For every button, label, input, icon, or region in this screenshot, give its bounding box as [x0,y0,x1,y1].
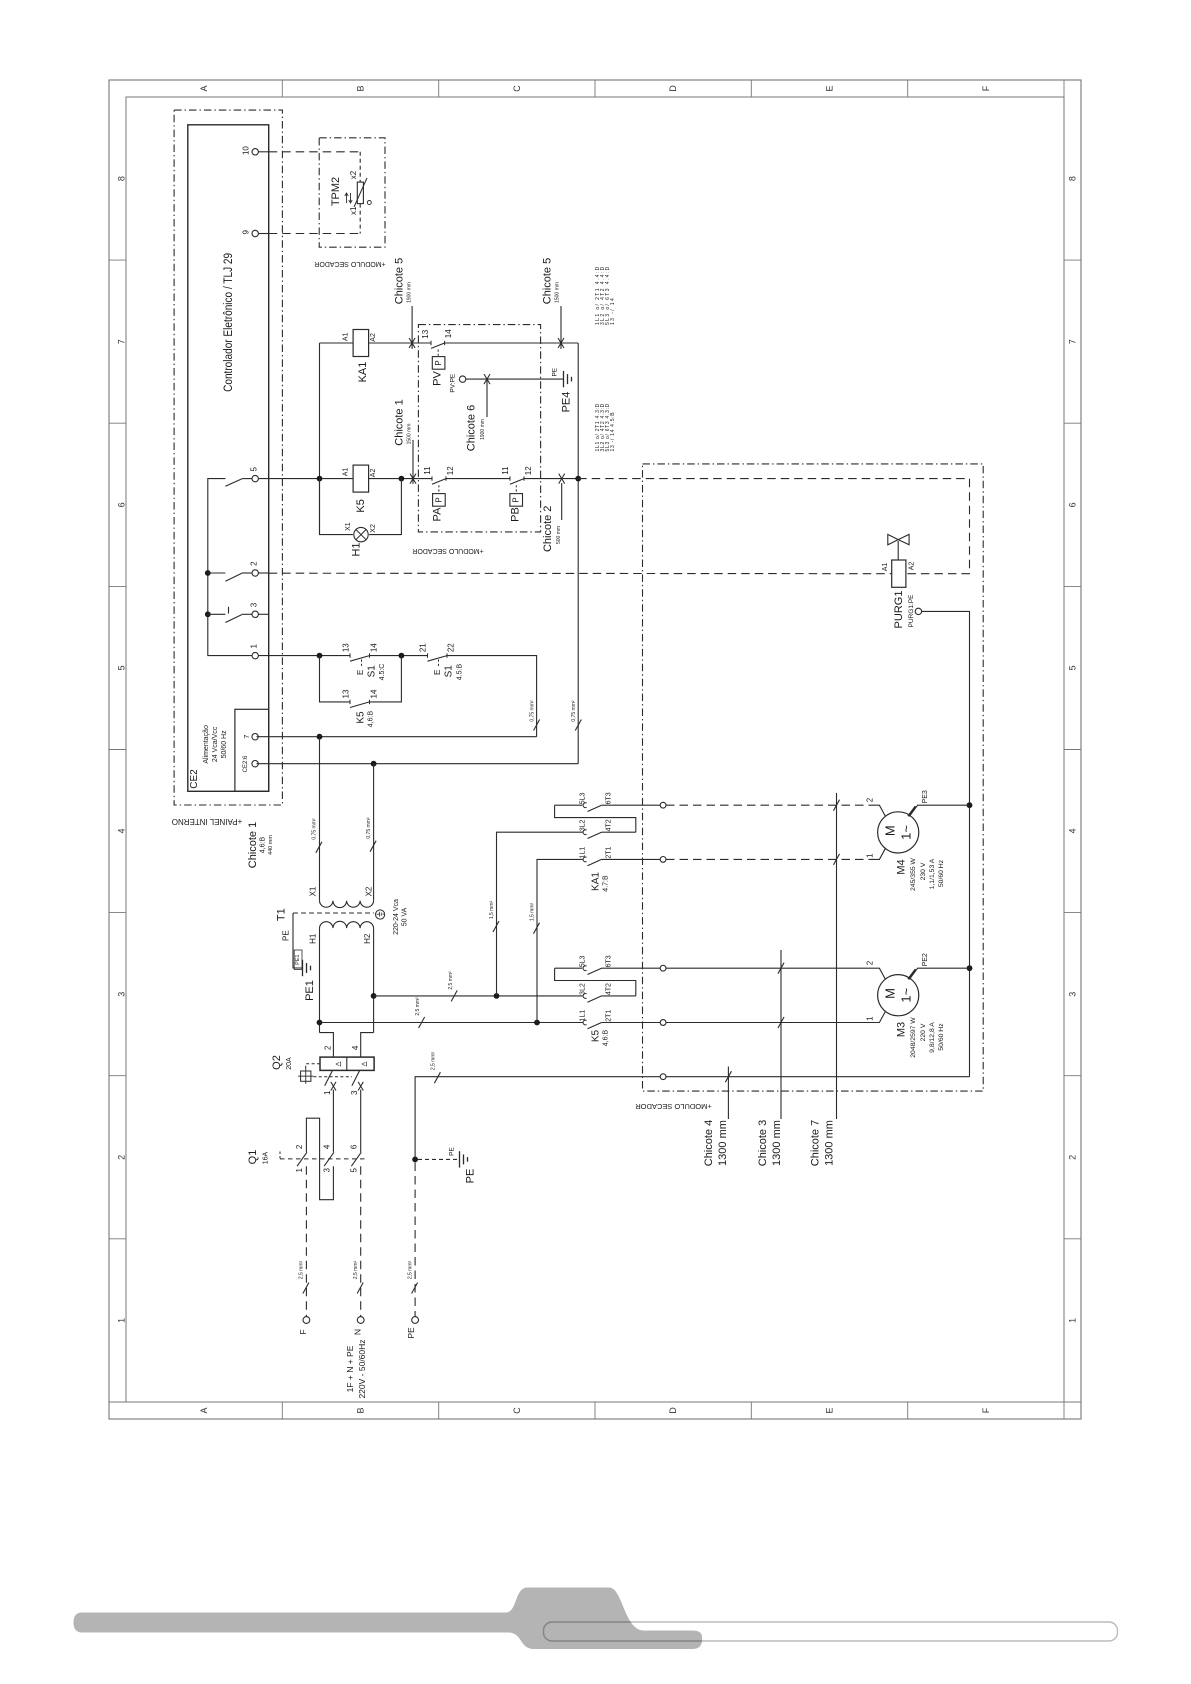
contact S1 13/14 [349,653,351,657]
svg-text:1500 mm: 1500 mm [555,282,561,303]
svg-text:2048/2597 W: 2048/2597 W [910,1017,917,1058]
frame row divider right [1064,422,1081,424]
svg-text:C: C [512,85,522,92]
svg-text:3: 3 [322,1168,331,1173]
frame row divider left [109,422,126,424]
motor M4 PE lead [909,805,969,816]
frame column divider bottom [438,1402,440,1419]
svg-text:220-24 Vca: 220-24 Vca [393,899,400,935]
wire KA1 coil to PV contact [369,342,431,344]
frame row divider right [1064,1075,1081,1077]
svg-text:2,5 mm²: 2,5 mm² [299,1261,305,1280]
svg-text:4,6:B: 4,6:B [260,837,267,854]
wire terminal 10 to TPM2 (dashed) [258,151,268,153]
ground symbol PE1 [302,960,304,976]
wire lamp branch left [320,479,353,535]
contactor KA1 contact 1L1-2T1 [583,857,587,862]
svg-text:1,5 mm²: 1,5 mm² [529,903,535,922]
terminal CE2:6 [252,761,258,767]
svg-text:TPM2: TPM2 [330,177,342,206]
svg-text:440 mm: 440 mm [268,835,274,855]
junction M4 PE [967,802,973,808]
svg-text:K5: K5 [355,499,367,512]
svg-text:3: 3 [117,992,127,997]
frame row divider left [109,1238,126,1240]
svg-text:2: 2 [1068,1155,1078,1160]
controller internal switch to terminal 5 [225,479,241,486]
contact K5 aux 13/14 [349,700,351,704]
Q1 linkage dashed [280,1158,365,1160]
svg-text:7: 7 [1068,339,1078,344]
junction K5aux right [399,653,405,659]
svg-text:H1: H1 [351,542,363,556]
controller terminal 1 [252,652,258,658]
svg-text:+PAINEL INTERNO: +PAINEL INTERNO [172,817,242,826]
svg-text:PE1: PE1 [304,980,316,1001]
svg-text:PE: PE [552,367,559,376]
slash 1.5mm feeder [493,921,499,932]
svg-text:N: N [352,1329,362,1335]
TPM2 adjust arrows [346,194,348,203]
svg-text:A1: A1 [882,563,889,572]
svg-text:1: 1 [1068,1318,1078,1323]
wire terminal 5 to K5 coil [258,478,353,480]
frame row divider right [1064,1238,1081,1240]
junction K5 feed [317,476,323,482]
Q2 pole 3 blade [352,1070,360,1085]
svg-text:1: 1 [866,853,875,858]
svg-text:Chicote 1: Chicote 1 [393,399,405,445]
svg-text:1500 mm: 1500 mm [407,424,413,445]
svg-text:3L2: 3L2 [580,819,587,831]
terminal PURG1 PE [915,608,921,614]
vertical wire x578 contact output down to CE2:6 wire [577,343,579,764]
enclosure +PAINEL INTERNO dash-dot box [174,110,282,805]
wire S1-22 down to terminal 7 row [447,656,537,737]
svg-text:CE2:6: CE2:6 [243,755,249,772]
thermostat TPM2 sensor leads [359,152,361,182]
svg-text:3: 3 [1068,992,1078,997]
T1 PE branch wire [293,913,303,968]
feeder wire to KA1 3L2 [497,832,583,996]
svg-text:PURG1:PE: PURG1:PE [908,594,915,628]
frame column divider bottom [750,1402,752,1419]
svg-text:14: 14 [444,329,453,338]
svg-text:A1: A1 [343,332,350,341]
svg-text:4T2: 4T2 [605,983,612,995]
svg-text:PE: PE [465,1169,477,1184]
svg-text:2: 2 [866,960,875,965]
controller box Controlador Eletronico / TLJ 29 [188,125,269,792]
svg-text:16A: 16A [262,1151,269,1164]
harness crossing X Chicote1 on KA1 row [409,338,415,348]
slash 1.5mm feeder 2 [533,923,539,934]
frame row divider left [109,585,126,587]
svg-text:Chicote 2: Chicote 2 [542,506,554,552]
junction valve return [575,476,581,482]
svg-text:1L1: 1L1 [580,847,587,859]
svg-text:1~: 1~ [899,987,914,1002]
svg-text:Controlador Eletrônico / TLJ 2: Controlador Eletrônico / TLJ 29 [221,253,235,392]
svg-text:K5: K5 [355,711,366,724]
svg-text:3: 3 [250,602,259,607]
contactor K5 contact 5L3-6T3 [583,966,587,971]
svg-text:M4: M4 [896,859,908,874]
svg-text:5: 5 [350,1168,359,1173]
svg-text:4.7:B: 4.7:B [603,875,610,892]
svg-text:Chicote 5: Chicote 5 [394,258,406,304]
transformer screen terminal circle [376,910,385,919]
svg-text:22: 22 [446,643,455,652]
K5 aux parallel branch [320,656,351,702]
slash 0.75mm on X2 lead [370,841,376,852]
wire F input dashed [305,1166,307,1316]
vertical wire x319.5 KA1 row to lamp row [319,343,321,535]
svg-text:0,75 mm²: 0,75 mm² [311,818,317,839]
wire terminal 2 to purge valve A1 (dashed) [258,572,268,574]
svg-text:A2: A2 [370,469,377,478]
K5 4T2 output to jumper [602,995,636,997]
connector circle K5 2T1 [660,1020,666,1026]
harness crossing X Chicote1 on K5 row [410,474,416,484]
Q2 manual actuator square [301,1071,311,1081]
svg-text:Chicote 1: Chicote 1 [247,822,259,868]
svg-text:2T1: 2T1 [605,846,612,858]
wire Q2 pole3 to Q1 pole6 [360,1090,362,1153]
junction KA1 1L1 feed tap [534,1020,540,1026]
frame row divider left [109,1075,126,1077]
svg-text:Alimentação: Alimentação [203,725,210,764]
svg-text:K5: K5 [591,1029,602,1042]
svg-text:0,75 mm²: 0,75 mm² [571,700,577,721]
enclosure +MODULO SECADOR box around PA PB PV [418,325,540,532]
svg-text:1~: 1~ [899,825,914,840]
frame row divider left [109,912,126,914]
PA actuator link dashes [438,485,440,493]
svg-text:4: 4 [351,1045,360,1050]
contact S1 21/22 [427,653,429,657]
svg-text:1300 mm: 1300 mm [824,1120,836,1166]
svg-text:P: P [434,497,443,502]
lamp H1 [354,527,368,541]
svg-text:13: 13 [421,329,430,338]
svg-text:E: E [433,670,442,675]
svg-text:8: 8 [117,176,127,181]
svg-text:12: 12 [524,466,533,475]
svg-text:T1: T1 [276,908,288,921]
junction H2 feed tap [371,993,377,999]
svg-text:A: A [199,85,209,91]
svg-text:1300 mm: 1300 mm [717,1120,729,1166]
frame row divider right [1064,259,1081,261]
svg-text:A: A [199,1407,209,1413]
wire K5 aux to junction [370,656,402,702]
ground symbol PE [459,1151,461,1167]
svg-text:D: D [668,1407,678,1414]
svg-text:6: 6 [1068,502,1078,507]
Q1 release dashed hook [279,1152,281,1159]
motor M3 circle [878,975,919,1016]
frame column divider top [750,80,752,97]
S1 actuator E dashes [361,660,363,668]
KA1 2T1 output wire [602,858,661,860]
svg-text:50/60 Hz: 50/60 Hz [938,859,945,887]
svg-text:4.5:B: 4.5:B [456,664,463,681]
svg-text:KA1: KA1 [357,362,369,383]
svg-text:6T3: 6T3 [605,792,612,804]
svg-text:2: 2 [250,561,259,566]
PB actuator link dashes [515,485,517,493]
connector circle PE entry [660,1074,666,1080]
svg-text:4,6:B: 4,6:B [368,711,375,728]
slash 0.75mm on S1 return [534,720,540,731]
wire PV:PE to ground PE4 [466,378,564,380]
controller terminal 5 [252,475,258,481]
contactor KA1 contact 3L2-4T2 [583,830,587,835]
svg-text:PB: PB [510,507,522,522]
svg-text:1900 mm: 1900 mm [407,282,413,303]
svg-text:2,5 mm²: 2,5 mm² [407,1261,413,1280]
svg-text:A2: A2 [909,562,916,571]
svg-text:X1: X1 [345,522,352,531]
wire terminal CE2:6 row [257,763,579,765]
slash Chicote3 on M3 t2 [778,963,784,974]
svg-text:6T3: 6T3 [605,955,612,967]
wire N input dashed [360,1166,362,1316]
Q1 pole 1-2 blade [297,1152,307,1166]
svg-text:Chicote 6: Chicote 6 [466,405,478,451]
wire K5 2T1 to M3 terminal 1 [666,1022,876,1024]
svg-text:1300 mm: 1300 mm [771,1120,783,1166]
transformer T1 primary winding H1-H2 [320,921,374,928]
svg-text:21: 21 [419,643,428,652]
harness leader Chicote 3 [780,950,782,1119]
svg-text:14: 14 [369,643,378,652]
wire KA1 6T3 to M4 terminal 2 (dashed) [666,804,876,806]
svg-text:PE2: PE2 [922,953,929,966]
wire KA1 2T1 to M4 terminal 1 (dashed) [666,858,876,860]
svg-text:E: E [825,1407,835,1413]
svg-text:P: P [512,497,521,502]
frame column divider top [1063,80,1065,97]
dashed wire to purge valve A2 return [578,479,969,574]
svg-text:4T2: 4T2 [605,819,612,831]
frame row divider right [1064,1401,1081,1403]
controller internal switch to terminal 3 (NC) [208,613,226,615]
svg-text:PA: PA [432,507,444,522]
svg-text:50/60 Hz: 50/60 Hz [221,730,228,759]
slash 2.5mm on PE [412,1283,418,1294]
svg-text:2,5 mm²: 2,5 mm² [353,1261,359,1280]
wire K5 coil to PA contact [369,478,432,480]
transformer T1 core dashed line [293,912,374,914]
svg-text:8: 8 [1068,176,1078,181]
svg-text:2: 2 [324,1045,333,1050]
wire T1 H1 lead down [319,928,321,1033]
contact PA 11/12 [431,476,433,480]
wire PA to PB [446,478,510,480]
jog H1 to Q2 terminal 2 [320,1033,334,1058]
svg-text:x1: x1 [349,206,358,215]
svg-text:PE: PE [282,930,291,941]
svg-text:2: 2 [295,1144,304,1149]
KA1 4T2 output to jumper [602,831,636,833]
svg-text:50/60 Hz: 50/60 Hz [938,1023,945,1051]
slash Chicote3 on M3 t1 [778,1017,784,1028]
terminal PV:PE [459,376,465,382]
svg-text:M: M [883,988,898,999]
slash 0.75mm on x578 wire [575,720,581,731]
svg-text:X2: X2 [364,886,373,896]
svg-text:x2: x2 [349,170,358,179]
wire PURG1 PE to PE bus [922,611,970,1076]
purge valve PURG1 bowtie symbol [888,534,909,544]
svg-text:Chicote 3: Chicote 3 [757,1120,769,1166]
svg-text:M3: M3 [896,1022,908,1037]
frame column divider top [907,80,909,97]
svg-text:7: 7 [117,339,127,344]
svg-text:PV: PV [432,371,444,386]
svg-text:<I: <I [335,1062,341,1069]
svg-text:2T1: 2T1 [605,1010,612,1022]
svg-text:Chicote 5: Chicote 5 [542,258,554,304]
svg-text:6: 6 [350,1144,359,1149]
enclosure +MODULO SECADOR dryer module box [643,464,984,1091]
pressure switch PV P-box [432,357,445,370]
svg-text:11: 11 [501,466,510,475]
wire K5 6T3 to M3 terminal 2 [666,967,876,969]
svg-text:1: 1 [295,1168,304,1173]
frame row divider left [109,749,126,751]
connector circle KA1 6T3 [660,802,666,808]
svg-text:3L2: 3L2 [580,983,587,995]
svg-text:PE3: PE3 [922,790,929,803]
svg-text:13 -/ 14: 13 -/ 14 [610,297,616,325]
harness leader Chicote 7 [836,793,838,1119]
thermostat TPM2 sensor body [357,182,363,204]
controller terminal 10 [252,149,258,155]
svg-text:0,75 mm²: 0,75 mm² [366,817,372,838]
svg-text:2,5 mm²: 2,5 mm² [415,997,421,1016]
terminal F [303,1317,310,1324]
wire terminal 7 row [257,736,537,738]
svg-text:PE: PE [406,1327,416,1339]
svg-text:500 mm: 500 mm [556,526,562,544]
svg-text:2,5 mm²: 2,5 mm² [431,1052,437,1071]
svg-text:1: 1 [117,1318,127,1323]
svg-text:PURG1: PURG1 [893,591,905,629]
pressure switch PA P-box [433,494,446,507]
contactor K5 contact 1L1-2T1 [583,1020,587,1025]
slash Chicote7 on M4 t1 [833,854,839,865]
svg-text:F: F [981,85,991,91]
controller internal bus wire [208,479,252,656]
svg-text:P: P [434,360,443,365]
slash 2.5mm on N [357,1283,363,1294]
svg-text:C: C [512,1407,522,1414]
harness leader Chicote 4 [727,1067,729,1120]
junction on bus at terminal 3 [205,611,211,617]
wire T1 H2 lead down [373,928,375,1033]
svg-text:M: M [883,825,898,836]
svg-text:5: 5 [1068,665,1078,670]
svg-text:A1: A1 [343,468,350,477]
junction lamp branch right [399,476,405,482]
drawing sheet inner border [126,97,1064,1402]
frame column divider top [438,80,440,97]
svg-text:+MODULO SECADOR: +MODULO SECADOR [314,260,385,267]
svg-text:X1: X1 [309,886,318,896]
svg-text:PE4: PE4 [561,392,573,413]
svg-text:13 -/ 14 4.5:B: 13 -/ 14 4.5:B [610,412,616,452]
K5 5L3 stub [555,967,583,969]
svg-text:12: 12 [446,466,455,475]
svg-text:9: 9 [242,230,251,235]
wire PE up and right to dryer module [415,1077,660,1160]
slash 2.5mm on F [303,1283,309,1294]
controller terminal 9 [252,230,258,236]
svg-text:13: 13 [341,689,350,698]
wire T1 X2 lead [373,764,375,901]
svg-text:PE: PE [449,1147,456,1156]
svg-text:6: 6 [117,502,127,507]
pressure switch PB P-box [510,494,523,507]
svg-text:+MODULO SECADOR: +MODULO SECADOR [635,1102,712,1111]
transformer T1 secondary winding X1-X2 [320,901,374,908]
svg-text:D: D [668,85,678,92]
svg-text:220 V: 220 V [920,1023,927,1041]
svg-text:5L3: 5L3 [580,955,587,967]
junction on bus at terminal 2 [205,570,211,576]
contact PV 13/14 [430,341,432,345]
frame row divider left [109,1401,126,1403]
motor M4 lead t1 [876,848,885,859]
svg-text:4: 4 [322,1144,331,1149]
contactor KA1 contact 5L3-6T3 [583,803,587,808]
Q2 actuator dashed link across [313,1076,352,1078]
svg-text:H2: H2 [363,933,372,944]
svg-text:PE1: PE1 [295,954,301,964]
junction PE [412,1157,418,1163]
svg-text:9,8/12,8 A: 9,8/12,8 A [929,1022,936,1053]
slash 0.75mm on X1 lead [316,842,322,853]
motor M3 lead t2 [876,968,885,979]
CE2 power supply sub-box [235,709,269,791]
svg-text:H1: H1 [309,933,318,944]
frame column divider bottom [594,1402,596,1419]
svg-text:S1: S1 [444,665,455,678]
KA1 6T3 output wire [602,804,661,806]
svg-text:10: 10 [242,146,251,155]
junction M3 PE [967,965,973,971]
svg-text:F: F [981,1407,991,1413]
slash 2.5mm on H1 feed [419,1017,425,1028]
wire Q1 pole2 hook over to pole3 (series link) [306,1118,333,1200]
svg-text:Q2: Q2 [271,1055,283,1070]
Q1 pole 5-6 blade [351,1152,361,1166]
svg-text:245/355 W: 245/355 W [910,857,917,890]
wire terminal 9 to TPM2 (dashed) [258,233,268,235]
svg-text:5: 5 [117,665,127,670]
svg-text:E: E [825,85,835,91]
contact PB 11/12 [509,476,511,480]
breaker Q2 box [320,1057,374,1070]
harness crossing X Chicote5 on KA1 row [558,338,564,348]
wire H1 feed to K5 1L1 row [320,1022,583,1024]
controller internal switch to terminal 2 [208,572,226,574]
svg-text:<I: <I [361,1062,367,1069]
svg-text:11: 11 [423,466,432,475]
